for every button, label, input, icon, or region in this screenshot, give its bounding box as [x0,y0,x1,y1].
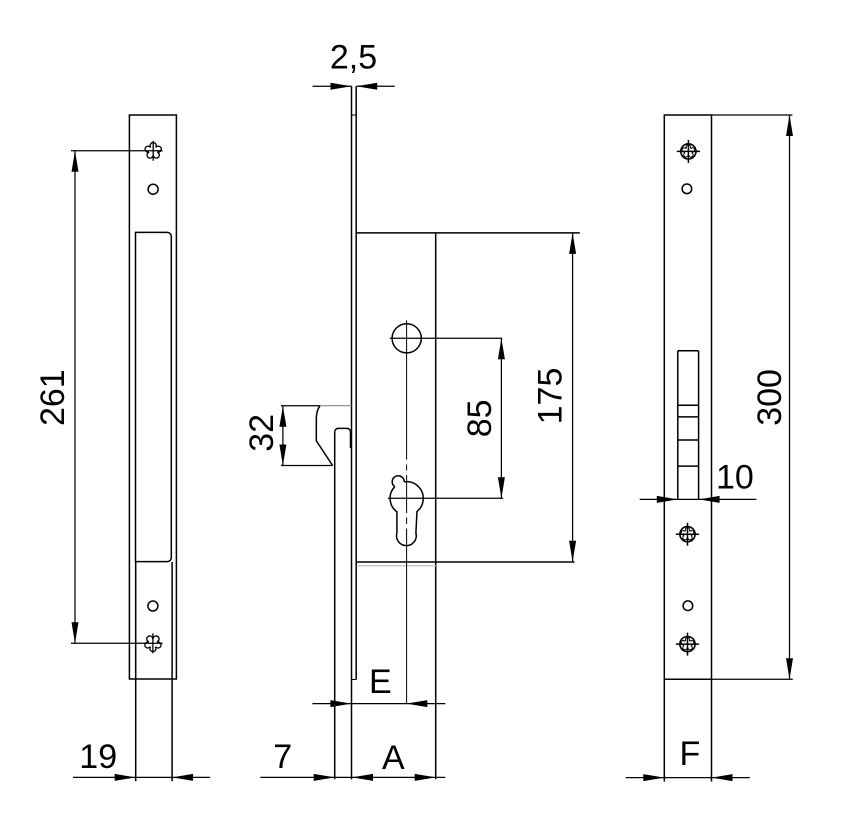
svg-text:85: 85 [461,399,499,437]
svg-text:175: 175 [532,368,570,425]
svg-text:A: A [382,739,405,777]
svg-text:261: 261 [34,369,72,426]
svg-text:E: E [369,663,392,701]
svg-text:F: F [680,735,701,773]
svg-text:19: 19 [79,738,117,776]
svg-text:7: 7 [273,738,292,776]
svg-text:10: 10 [716,458,754,496]
svg-text:2,5: 2,5 [330,39,377,77]
svg-text:300: 300 [751,369,789,426]
svg-text:32: 32 [243,414,281,452]
